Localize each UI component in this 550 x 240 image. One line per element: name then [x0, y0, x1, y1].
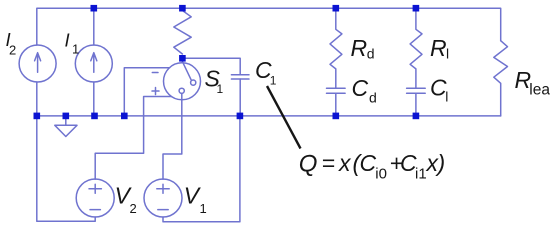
- svg-text:2: 2: [9, 43, 16, 58]
- svg-text:d: d: [367, 45, 375, 61]
- svg-text:C: C: [360, 150, 377, 176]
- svg-text:C: C: [352, 75, 369, 101]
- svg-text:l: l: [446, 45, 449, 61]
- svg-text:1: 1: [200, 201, 207, 216]
- svg-text:R: R: [430, 35, 447, 61]
- svg-text:1: 1: [270, 73, 277, 87]
- svg-text:R: R: [351, 35, 368, 61]
- svg-text:I: I: [65, 30, 70, 51]
- svg-text:1: 1: [72, 42, 79, 57]
- svg-text:l: l: [445, 89, 448, 105]
- svg-text:i1: i1: [415, 166, 427, 183]
- svg-text:lea: lea: [529, 81, 550, 98]
- svg-text:=: =: [322, 150, 335, 176]
- svg-text:Q: Q: [299, 150, 318, 177]
- svg-text:x: x: [338, 150, 352, 176]
- svg-text:d: d: [369, 90, 377, 106]
- svg-text:i0: i0: [375, 166, 387, 183]
- svg-text:1: 1: [217, 82, 224, 96]
- svg-text:2: 2: [130, 201, 137, 216]
